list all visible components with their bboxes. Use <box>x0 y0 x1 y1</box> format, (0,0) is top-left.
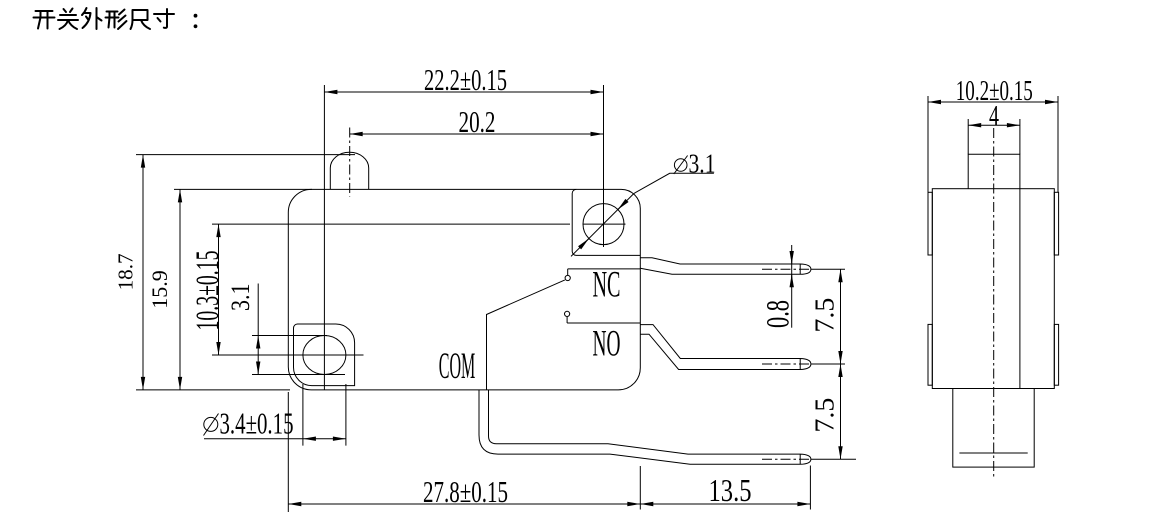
svg-text:10.3±0.15: 10.3±0.15 <box>190 251 226 331</box>
top-right hole crosshair <box>583 223 626 225</box>
top-right mounting pad <box>572 189 640 255</box>
dim 22.2 extension right <box>603 85 605 247</box>
NO contact circle <box>565 311 570 316</box>
side view centerline <box>993 128 995 479</box>
side view tabs right <box>1054 192 1058 255</box>
side view plunger <box>968 154 1020 188</box>
svg-text:0.8: 0.8 <box>760 300 796 328</box>
svg-text:4: 4 <box>989 100 999 132</box>
svg-text:13.5: 13.5 <box>709 473 752 508</box>
dim 20.2 line <box>350 133 604 135</box>
side view bottom terminal <box>953 389 1034 468</box>
NC terminal centerline <box>762 268 811 270</box>
svg-text:NO: NO <box>593 323 621 364</box>
dim 10.2 line <box>928 101 1058 103</box>
dim 18.7 extension bottom <box>136 389 290 391</box>
title 开 <box>34 11 55 29</box>
NO terminal centerline <box>762 363 811 365</box>
bottom-left mounting hole <box>303 336 346 375</box>
dim 4 line <box>968 124 1020 126</box>
title colon <box>194 14 198 28</box>
dim 27.8 line <box>288 503 640 505</box>
dim phi3.4 line <box>204 438 303 440</box>
bottom hole vertical centerline / 22.2 extension <box>323 85 325 390</box>
leader to phi3.1 <box>634 173 714 193</box>
label phi3.1 <box>674 159 687 172</box>
side view tabs left <box>928 192 932 255</box>
svg-text:3.4±0.15: 3.4±0.15 <box>220 406 294 441</box>
dim 10.3 line <box>218 224 220 355</box>
title 关 <box>58 9 78 30</box>
dim 13.5 line <box>640 503 810 505</box>
dim 3.1 extensions <box>252 336 345 375</box>
dim 27.8 extension left <box>287 392 289 512</box>
dim 13.5 extension right <box>809 466 811 510</box>
dim 3.1 line <box>257 284 259 336</box>
dim 27.8 extension right <box>639 466 641 510</box>
COM terminal centerline <box>762 458 811 460</box>
dim 10.2 extensions <box>928 96 1058 192</box>
svg-text:7.5: 7.5 <box>808 398 839 433</box>
svg-text:18.7: 18.7 <box>114 253 138 290</box>
bottom-left mounting pad <box>294 324 355 386</box>
dim phi3.4 extensions <box>303 384 346 446</box>
svg-text:3.1: 3.1 <box>226 284 255 312</box>
dim 7.5 lower line <box>840 364 842 459</box>
side view inner edge line <box>1019 189 1021 389</box>
svg-text:COM: COM <box>439 346 476 387</box>
dim 4 extensions <box>968 119 1020 154</box>
plunger <box>330 152 368 189</box>
svg-text:3.1: 3.1 <box>689 149 716 179</box>
side view body <box>932 189 1054 389</box>
title 尺 <box>131 10 151 29</box>
leader arrows <box>618 200 627 209</box>
dim 15.9 extension top <box>174 188 312 190</box>
svg-text:20.2: 20.2 <box>459 104 496 139</box>
svg-text:27.8±0.15: 27.8±0.15 <box>423 474 508 509</box>
title 外 <box>82 8 102 29</box>
title 寸 <box>154 9 174 28</box>
svg-text:15.9: 15.9 <box>147 270 172 309</box>
movable arm to COM <box>487 280 565 390</box>
svg-text:7.5: 7.5 <box>808 298 839 333</box>
dim 15.9 line <box>179 189 181 390</box>
svg-text:NC: NC <box>593 265 621 306</box>
dim 18.7 line <box>142 155 144 390</box>
NC fixed contact line <box>568 269 641 275</box>
top-right mounting hole <box>583 204 624 245</box>
dim 10.3 extension top <box>212 223 570 225</box>
plunger centerline <box>349 128 351 197</box>
switch body outline <box>288 189 640 390</box>
bottom hole horizontal centerline <box>212 354 364 356</box>
svg-text:22.2±0.15: 22.2±0.15 <box>424 62 507 97</box>
COM terminal <box>479 390 811 464</box>
dim 22.2 line <box>324 91 603 93</box>
NC terminal <box>640 258 811 275</box>
hole diameter line <box>571 193 634 256</box>
dim 0.8 line <box>791 245 793 328</box>
dim phi3.4 text <box>204 417 218 431</box>
NO terminal <box>640 325 811 370</box>
NO fixed contact line <box>567 317 640 323</box>
title 形 <box>106 10 127 30</box>
dim 18.7 extension top <box>136 154 355 156</box>
NC contact circle <box>565 275 570 280</box>
dim 7.5 upper line <box>840 269 842 364</box>
